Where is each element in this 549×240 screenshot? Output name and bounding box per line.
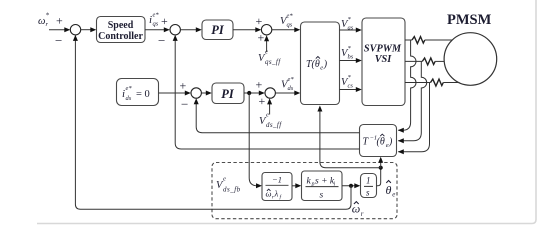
wire: T to SVPWM phase a xyxy=(340,28,362,33)
wire: S1 to Speed Controller xyxy=(81,27,97,32)
svg-text:*: * xyxy=(348,74,352,81)
svg-text:−: − xyxy=(181,97,188,112)
node V_ds_fb^e label xyxy=(216,176,241,194)
summer S5 (d voltage sum) xyxy=(265,88,275,98)
svg-text:θ: θ xyxy=(386,183,392,197)
svg-text:T(θ: T(θ xyxy=(306,59,320,70)
svg-text:PMSM: PMSM xyxy=(447,12,492,28)
svg-text:e*: e* xyxy=(288,76,295,83)
block: T-inverse transform xyxy=(360,125,397,157)
wire: Speed Controller to summer S2 xyxy=(145,27,170,32)
wire: S5 to T transform block xyxy=(275,91,300,96)
block: PI controller U2 (d axis) xyxy=(212,83,244,104)
svg-text:ds: ds xyxy=(126,95,132,102)
svg-text:s: s xyxy=(320,191,324,201)
svg-text:= 0: = 0 xyxy=(136,89,150,100)
wire: theta up into T-inverse xyxy=(378,157,383,168)
svg-text:e: e xyxy=(223,176,226,183)
svg-text:qs_ff: qs_ff xyxy=(265,58,281,66)
summer S1 (speed error) xyxy=(70,25,80,35)
svg-text:qs: qs xyxy=(153,21,159,28)
wire: T-inverse d-current feedback to S4 xyxy=(196,100,359,133)
block: Speed Controller xyxy=(97,17,146,43)
svg-text:qs: qs xyxy=(287,22,293,29)
wire: phase b sense tap down to T-inverse (hops over c) xyxy=(398,61,426,140)
svg-text:e: e xyxy=(266,112,269,119)
block: i_ds ref = 0 xyxy=(117,79,159,106)
node omega_r estimate label xyxy=(352,202,364,219)
motor PMSM stator circle xyxy=(444,33,497,86)
wire: T to SVPWM phase b xyxy=(340,58,362,63)
svg-text:−: − xyxy=(55,33,62,48)
svg-text:−1: −1 xyxy=(272,175,282,185)
svg-text:e*: e* xyxy=(287,13,294,20)
wire: S2 to PI q-axis xyxy=(180,27,201,32)
block: gain -1/(omega_r lambda_f) xyxy=(262,173,292,201)
estimator dashed box xyxy=(212,163,397,219)
svg-text:+: + xyxy=(256,78,263,92)
svg-text:PI: PI xyxy=(211,23,225,37)
svg-text:*: * xyxy=(46,12,50,20)
svg-text:e: e xyxy=(392,191,395,199)
node omega_r* reference label xyxy=(38,12,50,29)
svg-text:ds_ff: ds_ff xyxy=(266,121,282,129)
svg-text:+: + xyxy=(259,94,266,108)
wire: V_qs_ff arrow up into S3 xyxy=(264,35,269,52)
wire: PI estimator to integrator with omega tap node xyxy=(342,183,360,188)
wire: V_ds_fb tap down into estimator xyxy=(249,93,260,186)
node V_qs^e* label xyxy=(280,13,293,29)
svg-text:Speed: Speed xyxy=(108,20,134,31)
svg-text:VSI: VSI xyxy=(375,54,393,65)
node V_bs* label xyxy=(341,45,354,61)
junction node: omega_r estimate tap xyxy=(349,184,353,188)
svg-text:s + k: s + k xyxy=(315,177,335,187)
wire: phase a from VSI with winding zigzag xyxy=(405,37,453,44)
svg-text:r: r xyxy=(361,210,364,218)
node V_as* label xyxy=(341,16,354,32)
wire: speed ref into summer S1 xyxy=(49,27,70,32)
wire: theta branch left and up into T transform xyxy=(320,107,381,167)
wire: T to SVPWM phase c xyxy=(340,87,362,92)
summer S3 (q voltage sum) xyxy=(261,25,271,35)
wire: S4 to PI d-axis xyxy=(201,91,211,96)
node theta_e label xyxy=(386,181,396,199)
wire: phase a sense tap down to T-inverse (hops over b and c) xyxy=(398,40,416,130)
svg-text:): ) xyxy=(323,59,328,70)
svg-text:+: + xyxy=(161,14,168,28)
svg-text:(θ: (θ xyxy=(377,137,385,148)
svg-text:+: + xyxy=(256,14,263,28)
wire: phase b from VSI with winding zigzag xyxy=(405,58,445,65)
wire: i_ds ref to summer S4 xyxy=(159,91,191,96)
wire: phase c sense tap down to T-inverse xyxy=(398,83,429,152)
node V_ds^e* label xyxy=(281,76,294,92)
wire: S3 to T transform block xyxy=(272,27,301,32)
svg-text:λ: λ xyxy=(274,189,279,199)
svg-text:+: + xyxy=(56,14,63,28)
svg-text:SVPWM: SVPWM xyxy=(364,44,402,55)
summer S2 (q current error) xyxy=(170,25,180,35)
svg-text:e*: e* xyxy=(126,85,133,92)
node V_qs_ff^e feedforward label xyxy=(258,49,281,67)
svg-text:ω: ω xyxy=(38,16,45,27)
wire: integrator out up to theta node xyxy=(377,168,381,186)
svg-text:*: * xyxy=(348,16,352,23)
svg-text:cs: cs xyxy=(348,83,354,90)
wire: PI q to summer S3 xyxy=(233,27,261,32)
svg-text:Controller: Controller xyxy=(98,31,143,42)
junction node: V_ds_fb tap xyxy=(247,91,251,95)
svg-text:e*: e* xyxy=(153,12,160,19)
wire: T-inverse q-current feedback to S2 xyxy=(175,37,359,149)
wire: phase c from VSI with winding zigzag xyxy=(405,79,460,86)
junction node: theta_e estimate xyxy=(379,166,383,170)
svg-text:ω: ω xyxy=(266,189,272,199)
svg-text:−: − xyxy=(158,33,165,48)
svg-text:): ) xyxy=(388,137,393,148)
svg-text:1: 1 xyxy=(366,176,371,186)
wire: gain block to PI estimator block xyxy=(292,183,301,188)
svg-text:ω: ω xyxy=(352,202,360,216)
node V_ds_ff^e feedforward label xyxy=(259,112,282,130)
svg-text:PI: PI xyxy=(221,87,235,101)
block: PI controller U1 (q axis) xyxy=(202,20,233,40)
svg-text:+: + xyxy=(180,79,187,93)
wire: PI d to summer S5 with tap node xyxy=(244,91,265,96)
wire: V_ds_ff arrow up into S5 xyxy=(267,98,272,114)
svg-text:*: * xyxy=(348,45,352,52)
svg-text:s: s xyxy=(366,188,370,198)
svg-text:ds_fb: ds_fb xyxy=(223,186,241,194)
summer S4 (d current error) xyxy=(191,88,201,98)
block: SVPWM VSI inverter xyxy=(362,18,405,106)
node i_qs^e* label xyxy=(149,12,159,28)
wire: omega_r estimate feedback to S1 xyxy=(75,37,351,210)
block: PI estimator (kp s + ki)/s xyxy=(302,171,343,201)
svg-text:bs: bs xyxy=(348,54,354,61)
node V_cs* label xyxy=(341,74,353,90)
block: T(theta_e) dq to abc transform xyxy=(301,22,340,105)
svg-text:ds: ds xyxy=(288,85,294,92)
block: integrator 1/s xyxy=(361,174,377,198)
svg-text:r: r xyxy=(46,21,49,28)
